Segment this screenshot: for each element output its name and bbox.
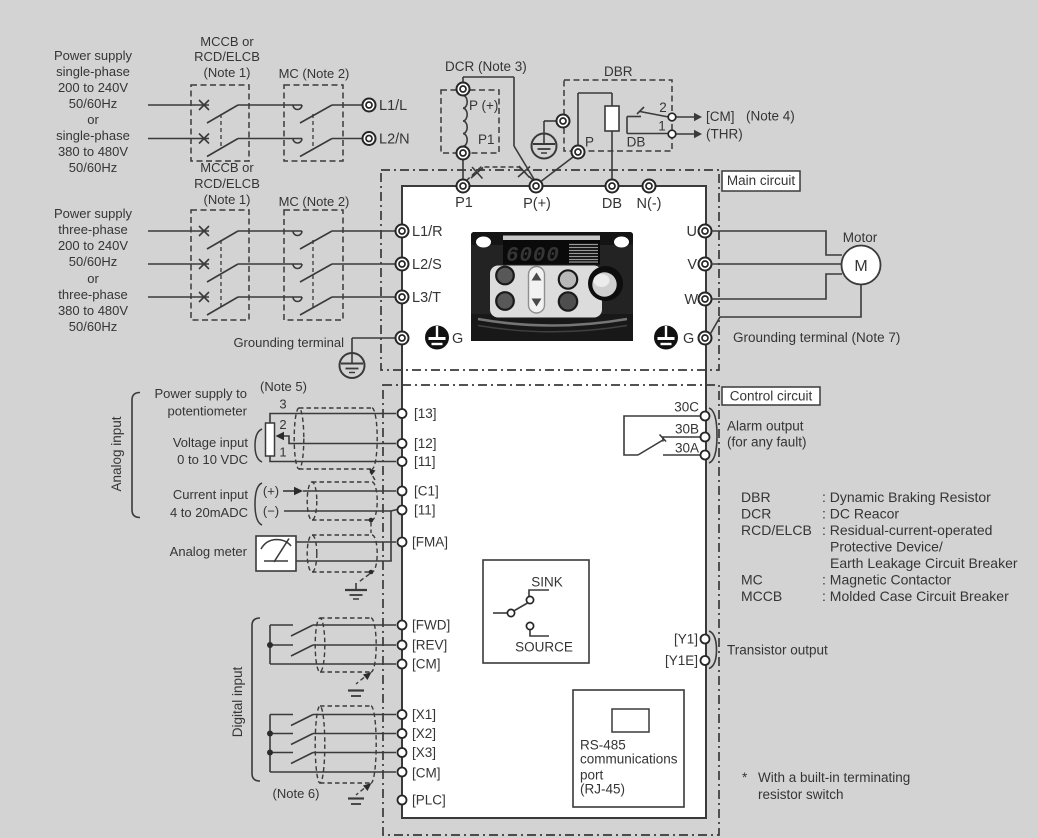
svg-text:: Magnetic Contactor: : Magnetic Contactor — [822, 572, 952, 588]
svg-text:4 to 20mADC: 4 to 20mADC — [170, 505, 248, 520]
svg-text:Control circuit: Control circuit — [730, 389, 813, 404]
svg-text:30A: 30A — [675, 441, 699, 456]
svg-text:Digital input: Digital input — [230, 666, 245, 737]
svg-text:Analog meter: Analog meter — [170, 544, 248, 559]
svg-text:M: M — [854, 258, 867, 275]
svg-text:Current input: Current input — [173, 487, 249, 502]
svg-text:Transistor output: Transistor output — [727, 643, 828, 658]
svg-text:1: 1 — [279, 445, 286, 460]
svg-text:resistor switch: resistor switch — [758, 787, 844, 802]
svg-text:380 to 480V: 380 to 480V — [58, 144, 128, 159]
svg-text:communications: communications — [580, 752, 678, 767]
svg-text:W: W — [684, 292, 698, 308]
svg-text:(Note 1): (Note 1) — [204, 65, 251, 80]
svg-text:200 to 240V: 200 to 240V — [58, 80, 128, 95]
svg-text:U: U — [687, 224, 697, 240]
svg-text:30C: 30C — [674, 400, 699, 415]
svg-text:(Note 6): (Note 6) — [273, 786, 320, 801]
svg-text:[Y1E]: [Y1E] — [665, 653, 698, 668]
svg-text:With a built-in terminating: With a built-in terminating — [758, 770, 910, 785]
svg-text:50/60Hz: 50/60Hz — [69, 96, 117, 111]
svg-text:RCD/ELCB: RCD/ELCB — [741, 522, 812, 538]
svg-text:[Y1]: [Y1] — [674, 632, 698, 647]
svg-text:MC: MC — [741, 572, 763, 588]
svg-text:Analog input: Analog input — [109, 416, 124, 491]
svg-text:(THR): (THR) — [706, 127, 743, 142]
svg-text:port: port — [580, 768, 604, 783]
svg-text:N(-): N(-) — [637, 196, 662, 212]
svg-text:L2/N: L2/N — [379, 132, 410, 148]
svg-text:(Note 5): (Note 5) — [260, 379, 307, 394]
svg-text:DB: DB — [627, 135, 646, 150]
svg-text:50/60Hz: 50/60Hz — [69, 160, 117, 175]
svg-text:or: or — [87, 271, 99, 286]
svg-text:(−): (−) — [263, 504, 279, 519]
svg-text:G: G — [683, 331, 694, 347]
svg-text:MCCB: MCCB — [741, 588, 782, 604]
svg-text:Grounding terminal (Note 7): Grounding terminal (Note 7) — [733, 330, 900, 345]
svg-text:DCR: DCR — [741, 506, 771, 522]
svg-text:*: * — [742, 770, 748, 785]
svg-text:P (+): P (+) — [469, 98, 498, 113]
svg-text:[13]: [13] — [414, 406, 437, 421]
svg-text:Grounding terminal: Grounding terminal — [233, 335, 344, 350]
svg-text:(+): (+) — [263, 484, 279, 499]
svg-text:: Dynamic Braking Resistor: : Dynamic Braking Resistor — [822, 489, 991, 505]
svg-text:P(+): P(+) — [523, 196, 551, 212]
svg-text:380 to 480V: 380 to 480V — [58, 303, 128, 318]
svg-text:[11]: [11] — [414, 503, 436, 518]
svg-text:single-phase: single-phase — [56, 128, 130, 143]
svg-text:RCD/ELCB: RCD/ELCB — [194, 176, 260, 191]
svg-text:6000: 6000 — [506, 245, 560, 268]
svg-text:DCR (Note 3): DCR (Note 3) — [445, 59, 527, 74]
svg-text:DBR: DBR — [741, 489, 771, 505]
svg-text:RCD/ELCB: RCD/ELCB — [194, 49, 260, 64]
svg-text:V: V — [687, 257, 697, 273]
svg-text:[X2]: [X2] — [412, 726, 436, 741]
svg-text:Alarm output: Alarm output — [727, 419, 804, 434]
svg-text:[PLC]: [PLC] — [412, 793, 446, 808]
svg-text:[X1]: [X1] — [412, 707, 436, 722]
svg-text:potentiometer: potentiometer — [168, 404, 248, 419]
svg-text:L3/T: L3/T — [412, 290, 441, 306]
svg-text:30B: 30B — [675, 422, 699, 437]
svg-text:Power supply: Power supply — [54, 206, 133, 221]
svg-text:MC (Note 2): MC (Note 2) — [279, 66, 350, 81]
svg-text:G: G — [452, 331, 463, 347]
svg-text:[C1]: [C1] — [414, 484, 439, 499]
svg-text:[11]: [11] — [414, 454, 436, 469]
svg-text:3: 3 — [279, 397, 286, 412]
svg-text:L2/S: L2/S — [412, 257, 442, 273]
svg-text:Protective Device/: Protective Device/ — [830, 539, 943, 555]
svg-text:[12]: [12] — [414, 436, 437, 451]
svg-text:MC (Note 2): MC (Note 2) — [279, 194, 350, 209]
svg-text:three-phase: three-phase — [58, 287, 127, 302]
svg-text:Voltage input: Voltage input — [173, 435, 249, 450]
svg-text:(RJ-45): (RJ-45) — [580, 782, 625, 797]
svg-text:[CM]: [CM] — [412, 766, 441, 781]
svg-text:[CM]: [CM] — [706, 109, 735, 124]
svg-text:50/60Hz: 50/60Hz — [69, 319, 117, 334]
svg-text:or: or — [87, 112, 99, 127]
svg-text:2: 2 — [659, 100, 667, 115]
svg-text:Motor: Motor — [843, 230, 878, 245]
svg-text:[CM]: [CM] — [412, 657, 441, 672]
svg-text:(Note 1): (Note 1) — [204, 192, 251, 207]
svg-text:50/60Hz: 50/60Hz — [69, 254, 117, 269]
svg-text:1: 1 — [658, 119, 666, 134]
svg-text:: DC Reacor: : DC Reacor — [822, 506, 899, 522]
svg-text:[X3]: [X3] — [412, 745, 436, 760]
svg-text:three-phase: three-phase — [58, 222, 127, 237]
svg-text:MCCB or: MCCB or — [200, 160, 254, 175]
svg-text:(for any fault): (for any fault) — [727, 435, 807, 450]
svg-text:single-phase: single-phase — [56, 64, 130, 79]
svg-text:Earth Leakage Circuit Breaker: Earth Leakage Circuit Breaker — [830, 555, 1018, 571]
svg-text:0 to 10 VDC: 0 to 10 VDC — [177, 452, 248, 467]
svg-text:Power supply to: Power supply to — [155, 386, 248, 401]
svg-text:SINK: SINK — [531, 575, 563, 590]
svg-text:: Residual-current-operated: : Residual-current-operated — [822, 522, 992, 538]
svg-text:(Note 4): (Note 4) — [746, 109, 795, 124]
svg-text:[REV]: [REV] — [412, 638, 447, 653]
svg-text:DB: DB — [602, 196, 622, 212]
svg-text:2: 2 — [279, 417, 286, 432]
svg-text:Main circuit: Main circuit — [727, 173, 796, 188]
svg-text:P1: P1 — [455, 195, 473, 211]
svg-text:P1: P1 — [478, 132, 495, 147]
svg-text:P: P — [585, 135, 594, 150]
svg-text:: Molded Case Circuit Breaker: : Molded Case Circuit Breaker — [822, 588, 1009, 604]
svg-text:L1/L: L1/L — [379, 98, 407, 114]
svg-text:RS-485: RS-485 — [580, 738, 626, 753]
svg-text:DBR: DBR — [604, 64, 633, 79]
svg-text:Power supply: Power supply — [54, 48, 133, 63]
svg-text:[FMA]: [FMA] — [412, 535, 448, 550]
svg-text:200 to 240V: 200 to 240V — [58, 238, 128, 253]
svg-text:SOURCE: SOURCE — [515, 640, 573, 655]
svg-text:[FWD]: [FWD] — [412, 618, 450, 633]
svg-text:L1/R: L1/R — [412, 224, 443, 240]
svg-text:MCCB or: MCCB or — [200, 34, 254, 49]
